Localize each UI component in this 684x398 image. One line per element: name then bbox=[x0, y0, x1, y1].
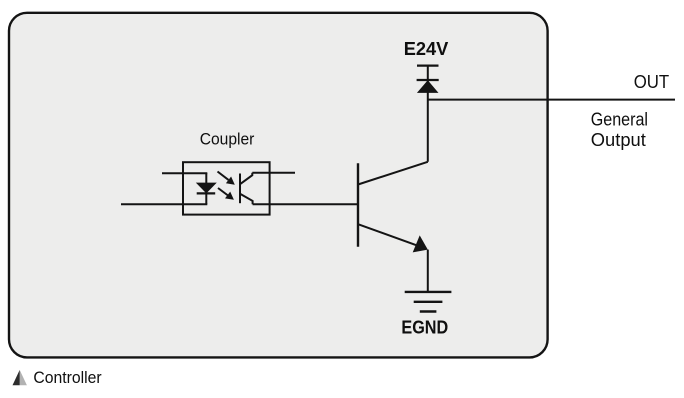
transistor Q2 collector diagonal bbox=[358, 162, 428, 185]
wire emitter vertical to ground bbox=[427, 250, 429, 292]
LED D2 cathode bar bbox=[197, 192, 216, 194]
ground EGND bar 1 bbox=[405, 291, 452, 293]
wire input top-left stub bbox=[162, 172, 207, 174]
optocoupler U1 box bbox=[183, 162, 270, 214]
svg-text:OUT: OUT bbox=[634, 71, 670, 92]
transistor Q2 emitter diagonal bbox=[358, 224, 418, 246]
svg-text:EGND: EGND bbox=[401, 317, 448, 338]
svg-text:Controller: Controller bbox=[33, 368, 102, 387]
legend marker triangle bbox=[20, 370, 27, 385]
svg-text:Output: Output bbox=[591, 130, 646, 150]
phototransistor Q1 collector bbox=[240, 173, 252, 185]
LED D2 vertical lead bbox=[205, 173, 207, 204]
wire OUT horizontal bbox=[428, 99, 675, 101]
light arrow 1 bbox=[218, 172, 229, 180]
controller enclosure box bbox=[9, 13, 548, 358]
phototransistor Q1 emitter bbox=[240, 194, 253, 204]
diode D1 cathode bar bbox=[417, 79, 439, 81]
light arrow 2 bbox=[218, 188, 228, 196]
ground EGND bar 3 bbox=[420, 310, 437, 312]
wire collector stub right bbox=[252, 172, 295, 174]
wire input bottom-left bbox=[121, 203, 207, 205]
E24V supply terminal bar bbox=[417, 64, 439, 66]
wire emitter to base of Q2 bbox=[253, 203, 358, 205]
phototransistor Q1 base bar bbox=[239, 174, 241, 204]
svg-text:E24V: E24V bbox=[404, 38, 449, 59]
transistor Q2 base bar bbox=[357, 163, 359, 246]
transistor Q2 emitter arrowhead bbox=[413, 235, 428, 252]
LED D2 anode triangle bbox=[197, 183, 216, 193]
svg-text:Coupler: Coupler bbox=[200, 130, 255, 149]
svg-text:General: General bbox=[591, 110, 648, 130]
diode D1 anode triangle bbox=[418, 81, 437, 92]
wire E24V vertical down to collector node bbox=[427, 66, 429, 162]
ground EGND bar 2 bbox=[414, 301, 443, 303]
